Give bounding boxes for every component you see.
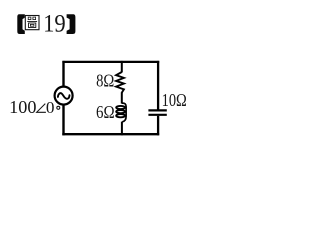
wire: right vertical lower (capacitor to bottom wire): [157, 116, 159, 136]
svg-text:8Ω: 8Ω: [96, 71, 114, 91]
wire: middle branch bottom stub: [121, 122, 123, 136]
ac source V1 circle: [55, 87, 73, 105]
wire: top horizontal: [62, 61, 159, 63]
svg-text:10Ω: 10Ω: [162, 90, 187, 110]
wire: left vertical upper (top wire to source): [62, 61, 64, 87]
capacitor C 10ohm bottom plate: [148, 114, 166, 116]
inductor L 6ohm coil: [116, 103, 126, 122]
ac source sine wave: [58, 93, 70, 99]
wire: middle branch top stub: [121, 61, 123, 73]
title left lenticular bracket 【: [17, 14, 25, 34]
svg-text:6Ω: 6Ω: [96, 102, 115, 122]
wire: left vertical lower (source to bottom wire): [62, 105, 64, 136]
wire: bottom horizontal: [62, 133, 159, 135]
svg-text:100: 100: [9, 97, 37, 117]
title glyph 圖 (Figure): [25, 16, 39, 30]
svg-text:0: 0: [46, 98, 55, 117]
capacitor C 10ohm top plate: [148, 109, 166, 111]
angle symbol ∠: [37, 104, 46, 113]
resistor R 8ohm zigzag: [116, 72, 124, 93]
wire: stub between resistor and inductor: [121, 92, 123, 103]
wire: right vertical upper (top wire to capacitor): [157, 61, 159, 110]
title right lenticular bracket 】: [67, 14, 76, 34]
svg-text:19: 19: [43, 9, 66, 38]
